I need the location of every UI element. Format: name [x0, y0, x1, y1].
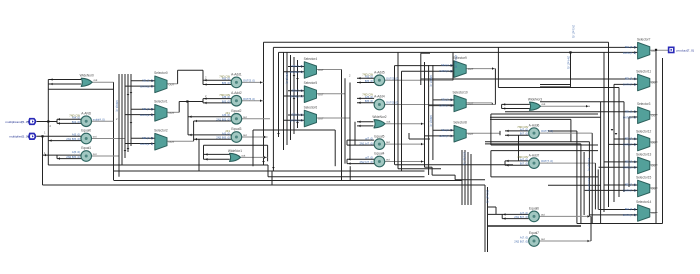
svg-text:B(5..0): B(5..0) [365, 99, 373, 103]
svg-text:DATA(7..0): DATA(7..0) [429, 115, 432, 127]
svg-text:DATA(7..0): DATA(7..0) [623, 51, 636, 55]
svg-text:SEL(2..0): SEL(2..0) [441, 98, 452, 102]
svg-text:DATA(7..0): DATA(7..0) [623, 143, 636, 147]
svg-text:out: out [242, 153, 246, 157]
svg-text:A(7..0): A(7..0) [520, 235, 528, 239]
svg-text:A(5..0): A(5..0) [222, 113, 230, 117]
svg-text:2N1 B(7..0): 2N1 B(7..0) [514, 215, 528, 219]
svg-text:DATA(2..0): DATA(2..0) [285, 72, 288, 84]
svg-text:2N1 B(5..0): 2N1 B(5..0) [216, 117, 230, 121]
svg-text:OUT: OUT [468, 132, 474, 136]
svg-text:OUT(5..0): OUT(5..0) [243, 97, 255, 101]
svg-text:Selector10: Selector10 [452, 90, 467, 94]
svg-text:B(5..0): B(5..0) [222, 81, 230, 85]
svg-text:B(4..0): B(4..0) [72, 120, 80, 124]
svg-text:SEL(2..0): SEL(2..0) [142, 136, 153, 140]
svg-text:out: out [542, 102, 546, 106]
svg-text:DATA(7..0): DATA(7..0) [429, 75, 432, 87]
svg-text:Equal6: Equal6 [529, 207, 539, 211]
svg-text:DATA(2..0): DATA(2..0) [290, 94, 303, 98]
svg-text:A(4..0): A(4..0) [72, 116, 80, 120]
svg-text:WideNor1: WideNor1 [228, 149, 242, 153]
svg-text:OUT: OUT [651, 211, 657, 215]
svg-text:Selector7: Selector7 [637, 38, 651, 42]
svg-text:out: out [541, 213, 545, 217]
svg-text:B(7..0): B(7..0) [520, 132, 528, 136]
svg-text:2N1 a(7..0): 2N1 a(7..0) [463, 152, 467, 165]
svg-text:SEL(2..0): SEL(2..0) [625, 207, 636, 211]
svg-text:SEL(2..0): SEL(2..0) [142, 107, 153, 111]
svg-text:Selector11: Selector11 [636, 69, 651, 73]
svg-text:A(5..0): A(5..0) [365, 75, 373, 79]
svg-text:A(7..0): A(7..0) [520, 127, 528, 131]
svg-text:OUT: OUT [651, 81, 657, 85]
svg-text:multi(4..0): multi(4..0) [93, 117, 105, 121]
svg-text:B(5..0): B(5..0) [365, 79, 373, 83]
svg-text:Selector2: Selector2 [154, 129, 168, 133]
svg-text:WideNor2: WideNor2 [372, 115, 386, 119]
svg-text:A-Add4: A-Add4 [374, 95, 385, 99]
svg-text:DATA(7..0): DATA(7..0) [623, 115, 636, 119]
svg-text:DATA(7..0): DATA(7..0) [623, 83, 636, 87]
svg-text:multiplicand[5..0]: multiplicand[5..0] [5, 120, 28, 124]
svg-text:OUT: OUT [169, 82, 175, 86]
svg-text:OUT: OUT [318, 117, 324, 121]
svg-text:Selector4: Selector4 [304, 57, 318, 61]
svg-text:2N2 b(7..0): 2N2 b(7..0) [360, 160, 374, 164]
svg-text:OUT: OUT [468, 67, 474, 71]
svg-text:B(5..0): B(5..0) [222, 99, 230, 103]
svg-text:OUT: OUT [651, 164, 657, 168]
svg-text:A-Add7: A-Add7 [529, 153, 540, 157]
svg-text:SEL(2..0): SEL(2..0) [625, 45, 636, 49]
svg-text:Equal5: Equal5 [374, 134, 384, 138]
svg-text:A-Add6: A-Add6 [529, 123, 540, 127]
svg-text:SEL(2..0): SEL(2..0) [291, 64, 302, 68]
svg-text:OUT: OUT [318, 92, 324, 96]
svg-text:DATA(2..0): DATA(2..0) [140, 113, 153, 117]
svg-text:B(7..0): B(7..0) [520, 162, 528, 166]
svg-text:Selector1: Selector1 [154, 100, 168, 104]
svg-text:Equal1: Equal1 [81, 146, 91, 150]
svg-text:Selector15: Selector15 [636, 175, 651, 179]
svg-text:out: out [94, 78, 98, 82]
svg-text:DATA(2..0): DATA(2..0) [140, 84, 153, 88]
svg-text:DATA(7..0): DATA(7..0) [439, 134, 452, 138]
svg-text:2N2 B(5..0): 2N2 B(5..0) [66, 155, 80, 159]
svg-text:DATA(2..0): DATA(2..0) [290, 70, 303, 74]
svg-text:Selector8: Selector8 [453, 121, 467, 125]
svg-text:SEL(2..0): SEL(2..0) [441, 63, 452, 67]
svg-text:a(7..0): a(7..0) [365, 137, 373, 141]
svg-text:A(7..0): A(7..0) [520, 211, 528, 215]
svg-text:SEL(2..0): SEL(2..0) [625, 183, 636, 187]
svg-text:A(5..0): A(5..0) [365, 95, 373, 99]
svg-text:Equal7: Equal7 [529, 231, 539, 235]
svg-text:out: out [243, 133, 247, 137]
svg-text:Equal3: Equal3 [231, 127, 241, 131]
svg-text:2N1 a(7..0): 2N1 a(7..0) [587, 158, 591, 171]
svg-text:SEL(2..0): SEL(2..0) [291, 88, 302, 92]
svg-text:SEL(2..0): SEL(2..0) [291, 113, 302, 117]
svg-text:2N1 B(5..0): 2N1 B(5..0) [66, 137, 80, 141]
svg-text:Selector3: Selector3 [637, 102, 651, 106]
svg-text:OUT: OUT [651, 49, 657, 53]
svg-text:DATA(2..0): DATA(2..0) [115, 100, 118, 112]
svg-text:Selector0: Selector0 [154, 71, 168, 75]
svg-text:SEL(2..0): SEL(2..0) [625, 137, 636, 141]
svg-text:DATA(7..0): DATA(7..0) [439, 69, 452, 73]
svg-text:a(7..0): a(7..0) [365, 156, 373, 160]
svg-text:Selector13: Selector13 [636, 152, 651, 156]
svg-text:A-Add1: A-Add1 [231, 73, 242, 77]
svg-text:OUT(7..0): OUT(7..0) [541, 159, 553, 163]
svg-text:2N4 a(7..0): 2N4 a(7..0) [567, 56, 571, 69]
svg-text:OUT: OUT [169, 140, 175, 144]
svg-text:A(5..0): A(5..0) [72, 150, 80, 154]
svg-text:OUT: OUT [468, 102, 474, 106]
svg-text:2N2 B(7..0): 2N2 B(7..0) [514, 240, 528, 244]
svg-text:Selector5: Selector5 [304, 81, 318, 85]
svg-text:A-Add5: A-Add5 [374, 71, 385, 75]
svg-text:out: out [387, 120, 391, 124]
svg-text:Equal2: Equal2 [231, 109, 241, 113]
svg-text:A(5..0): A(5..0) [222, 77, 230, 81]
svg-text:out: out [93, 152, 97, 156]
svg-text:OUT: OUT [651, 187, 657, 191]
svg-text:DATA(7..0): DATA(7..0) [439, 104, 452, 108]
svg-text:DATA(7..0): DATA(7..0) [623, 189, 636, 193]
svg-text:out: out [386, 140, 390, 144]
svg-text:out: out [386, 158, 390, 162]
svg-text:2N1 a(7..0): 2N1 a(7..0) [572, 25, 576, 38]
svg-text:DATA(7..0): DATA(7..0) [623, 166, 636, 170]
svg-text:WideNor0: WideNor0 [80, 74, 94, 78]
svg-text:2N1 a(7..0): 2N1 a(7..0) [587, 178, 591, 191]
svg-text:DATA(2..0): DATA(2..0) [140, 142, 153, 146]
svg-text:A(5..0): A(5..0) [222, 131, 230, 135]
svg-text:product[7..0]: product[7..0] [677, 48, 694, 52]
svg-text:SEL(2..0): SEL(2..0) [441, 128, 452, 132]
svg-text:OUT(7..0): OUT(7..0) [541, 129, 553, 133]
svg-text:A(7..0): A(7..0) [520, 157, 528, 161]
svg-text:Selector12: Selector12 [636, 129, 651, 133]
svg-text:OUT: OUT [169, 111, 175, 115]
svg-text:OUT: OUT [651, 141, 657, 145]
svg-text:Selector14: Selector14 [636, 200, 651, 204]
svg-text:2N1 a(7..0): 2N1 a(7..0) [454, 55, 458, 68]
svg-text:Equal4: Equal4 [374, 152, 384, 156]
svg-text:OUT: OUT [651, 113, 657, 117]
svg-text:OUT(5..0): OUT(5..0) [386, 101, 398, 105]
svg-text:2N1 a(7..0): 2N1 a(7..0) [486, 190, 490, 203]
svg-text:OUT(5..0): OUT(5..0) [386, 76, 398, 80]
svg-text:DATA(2..0): DATA(2..0) [290, 119, 303, 123]
svg-text:SEL(2..0): SEL(2..0) [625, 160, 636, 164]
svg-text:multiplier[5..0]: multiplier[5..0] [9, 135, 28, 139]
svg-text:OUT(5..0): OUT(5..0) [243, 79, 255, 83]
svg-text:out: out [93, 135, 97, 139]
svg-text:DATA(7..0): DATA(7..0) [623, 213, 636, 217]
svg-text:OUT: OUT [318, 68, 324, 72]
svg-text:out: out [541, 237, 545, 241]
svg-text:2N2 B(5..0): 2N2 B(5..0) [216, 136, 230, 140]
svg-text:A(5..0): A(5..0) [222, 95, 230, 99]
svg-text:SEL(2..0): SEL(2..0) [142, 78, 153, 82]
svg-text:SEL(2..0): SEL(2..0) [625, 77, 636, 81]
svg-text:WideNor3: WideNor3 [528, 98, 542, 102]
svg-text:Selector6: Selector6 [304, 105, 318, 109]
svg-text:Equal0: Equal0 [81, 129, 91, 133]
svg-text:2N1 b(7..0): 2N1 b(7..0) [360, 142, 374, 146]
svg-text:out: out [243, 115, 247, 119]
svg-text:A-Add2: A-Add2 [231, 91, 242, 95]
svg-text:SEL(2..0): SEL(2..0) [625, 109, 636, 113]
svg-text:A(5..0): A(5..0) [72, 133, 80, 137]
svg-text:A-AND: A-AND [81, 111, 92, 115]
